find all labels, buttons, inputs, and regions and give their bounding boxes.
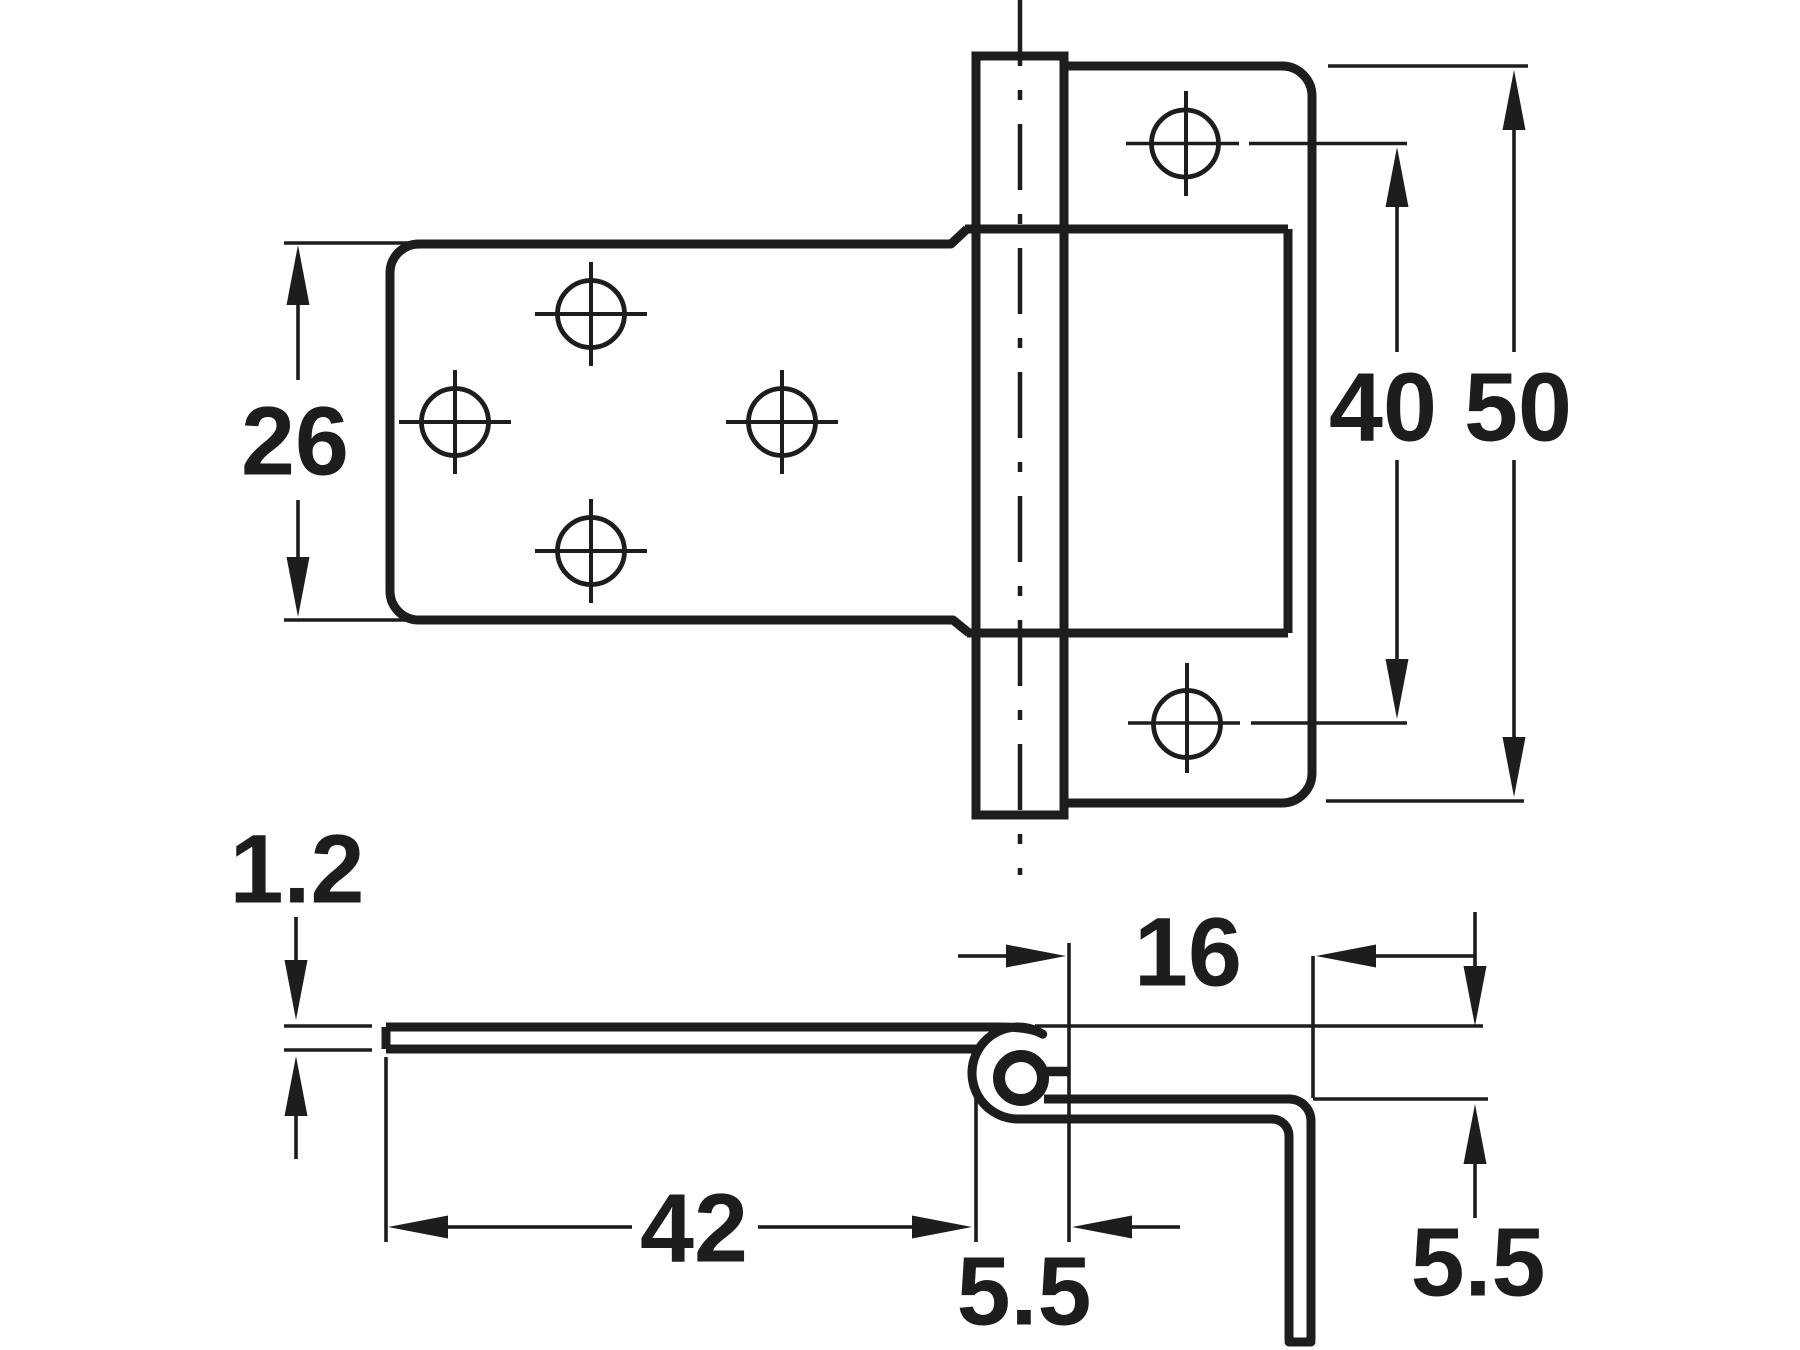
door leaf end cap: [382, 1027, 391, 1049]
hinge leaf outline (plan view): [390, 229, 969, 633]
extension line dim 42 right / 5.5 left: [974, 1098, 978, 1242]
crosshair hole P2: [1185, 663, 1189, 773]
extension line top leaf surface (5.5 right): [1035, 1024, 1483, 1028]
door leaf bottom surface: [386, 1045, 976, 1054]
crosshair hole L1: [399, 370, 511, 474]
extension line dim 5.5 mid right / 16 left: [1067, 943, 1071, 1242]
dim 5.5 right: [1473, 912, 1477, 968]
dim 16: [1006, 945, 1066, 968]
screw hole P2: [1154, 691, 1221, 758]
knuckle top cap: [972, 52, 1069, 61]
extension line hole P2 / dim 40 bottom: [1128, 721, 1407, 725]
screw hole P1: [1152, 110, 1219, 177]
centerline of hinge pin: [1018, 0, 1023, 875]
screw hole L1: [422, 389, 489, 456]
leaf band bottom line: [967, 629, 1288, 638]
screw hole L3: [558, 281, 625, 348]
extension line dim 26 bottom: [284, 618, 412, 622]
crosshair hole L4: [535, 499, 647, 603]
extension line frame leaf surface (5.5 right): [1313, 1097, 1488, 1101]
dim 5.5 middle: [1072, 1216, 1132, 1239]
crosshair hole P1: [1184, 91, 1188, 196]
dim 40: [1386, 147, 1409, 207]
knuckle left edge: [972, 52, 981, 819]
plate inner edge: [1284, 229, 1293, 633]
leaf band top line: [965, 225, 1288, 234]
dim 26: [287, 245, 310, 305]
frame leaf top surface + leg outer: [1044, 1099, 1311, 1340]
knuckle right edge: [1060, 52, 1069, 819]
svg-text:50: 50: [1464, 353, 1572, 462]
screw hole L4: [558, 518, 625, 585]
leg bottom cap: [1289, 1338, 1311, 1347]
hinge pin: [999, 1056, 1043, 1100]
curl end stub: [1046, 1067, 1068, 1077]
tick line 1.2 top: [284, 1024, 372, 1028]
extension line dim 50 top: [1328, 64, 1528, 68]
svg-text:40: 40: [1329, 353, 1437, 462]
dim 42: [388, 1216, 448, 1239]
dim 1.2: [294, 917, 298, 962]
extension line dim 16 right: [1311, 956, 1315, 1098]
svg-text:5.5: 5.5: [957, 1237, 1092, 1346]
extension line dim 42 left: [384, 1057, 388, 1242]
extension line dim 50 bottom: [1326, 799, 1524, 803]
svg-text:16: 16: [1134, 898, 1242, 1007]
tick line 1.2 bottom: [284, 1048, 372, 1052]
extension line dim 26 top: [284, 241, 412, 245]
knuckle bottom cap: [972, 811, 1069, 820]
svg-text:1.2: 1.2: [230, 815, 365, 924]
crosshair hole L3: [535, 262, 647, 366]
svg-text:42: 42: [640, 1174, 748, 1283]
svg-text:26: 26: [241, 387, 349, 496]
frame plate outline: [1064, 66, 1312, 803]
svg-text:5.5: 5.5: [1411, 1208, 1546, 1317]
screw hole L2: [749, 389, 816, 456]
crosshair hole L2: [726, 370, 838, 474]
extension line hole P1 / dim 40 top: [1126, 142, 1407, 146]
dim 50: [1503, 70, 1526, 130]
door leaf top surface + curl + inner leaf surface + leg inner: [386, 1027, 1289, 1340]
